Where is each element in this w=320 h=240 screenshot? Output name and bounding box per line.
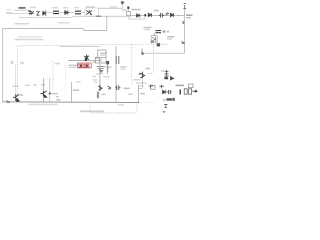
label bbox=[121, 66, 127, 67]
wire bbox=[81, 12, 85, 14]
wire cap to box bbox=[153, 33, 155, 36]
marks bbox=[102, 94, 106, 96]
component dark blob bbox=[164, 77, 168, 79]
cluster marks bbox=[151, 40, 155, 43]
label row bbox=[15, 23, 30, 25]
fuse F1 label bbox=[19, 7, 26, 9]
dashed module box right bbox=[152, 44, 154, 73]
wire neutral return bbox=[18, 15, 96, 18]
transformer T1 windings bbox=[86, 10, 92, 15]
wire drop to rectifier box bbox=[127, 9, 129, 12]
label Q2 bbox=[20, 94, 24, 96]
label bbox=[52, 93, 58, 95]
varistor RV1 dark blob bbox=[28, 10, 31, 12]
dashed lower box right bbox=[136, 102, 138, 113]
fuse F1 bbox=[29, 11, 34, 15]
dashed lower box left bbox=[89, 102, 91, 113]
inductor L2 bbox=[166, 12, 170, 15]
label bbox=[103, 66, 109, 67]
resistor R marked 1 bbox=[79, 64, 83, 67]
label row bbox=[18, 36, 42, 37]
component dot bbox=[100, 71, 102, 73]
components below U1 bbox=[97, 67, 105, 71]
label T1 bbox=[86, 6, 95, 7]
label bbox=[140, 93, 145, 95]
bottom right cluster row1 bbox=[149, 85, 154, 88]
label bbox=[154, 10, 159, 12]
wire drop to lower rail bbox=[106, 16, 108, 30]
label MC bbox=[167, 36, 174, 38]
label bbox=[121, 9, 127, 11]
diode D4 bbox=[137, 14, 140, 18]
polarity mark bbox=[182, 21, 184, 24]
wire stub up bbox=[141, 49, 143, 53]
bottom bus wire bbox=[3, 101, 139, 104]
output terminal + bbox=[183, 4, 186, 9]
capacitor C6 bbox=[171, 13, 174, 17]
wire bbox=[59, 12, 64, 14]
wire secondary bottom bbox=[96, 15, 132, 17]
dashed inner box left bbox=[52, 61, 54, 92]
transistor Q3 bbox=[41, 91, 47, 98]
wire dark segment bbox=[96, 15, 101, 17]
wire output rail bbox=[132, 14, 185, 16]
capacitor C1 bbox=[53, 11, 59, 13]
capacitor C5 bbox=[159, 13, 164, 18]
bottom center transistor Q5 bbox=[98, 85, 102, 91]
transformer T1 box bbox=[85, 8, 99, 16]
AC return squiggle bbox=[6, 100, 10, 102]
capacitor bbox=[116, 85, 121, 90]
dashed lower box bottom bbox=[90, 112, 137, 114]
label above U1 bbox=[100, 53, 107, 54]
component dark mark bbox=[106, 61, 109, 64]
label feedback bbox=[144, 27, 152, 29]
labels near bus x133 bbox=[133, 79, 140, 81]
junction dot bbox=[99, 70, 101, 72]
red highlight box bbox=[78, 63, 92, 68]
terminal mark bbox=[21, 62, 24, 65]
dashed inner box right bbox=[131, 44, 133, 85]
diode mark bbox=[170, 76, 174, 80]
resistor vertical below mark bbox=[106, 65, 108, 75]
terminal mark bbox=[11, 61, 14, 64]
primary bus wire bbox=[3, 29, 107, 31]
marks left of x71 bbox=[56, 96, 59, 97]
wire vertical x71 bbox=[70, 82, 72, 102]
label below bus left bbox=[118, 104, 124, 106]
right mid chain resistor divider bbox=[164, 70, 168, 80]
wire bbox=[70, 12, 76, 14]
resistor vertical bbox=[97, 91, 99, 98]
wire output return bbox=[128, 16, 145, 20]
diode D1 bbox=[42, 10, 46, 16]
wire center vertical bbox=[115, 46, 117, 102]
wire top link bbox=[46, 12, 53, 14]
label bbox=[69, 65, 78, 67]
snubber diode D3 bbox=[121, 1, 124, 5]
label right of red box bbox=[93, 62, 97, 63]
arrow on wire bbox=[48, 92, 51, 95]
thermistor RT1 bbox=[36, 11, 39, 15]
label bbox=[58, 22, 69, 24]
label bbox=[128, 94, 133, 96]
label bbox=[92, 76, 96, 77]
junction dark bbox=[157, 43, 161, 46]
node AC input label bbox=[6, 12, 12, 14]
label below bus center-left bbox=[29, 104, 58, 106]
small glyph bbox=[163, 30, 166, 32]
label bbox=[95, 57, 100, 59]
dashed divider bbox=[64, 62, 66, 90]
wire bbox=[139, 78, 143, 88]
marks near 78 82 bbox=[76, 81, 81, 82]
glyph bbox=[108, 86, 112, 89]
wire secondary top bbox=[99, 7, 123, 9]
dashes bbox=[161, 43, 168, 45]
arrow out bbox=[192, 90, 197, 92]
capacitor C7 bbox=[156, 31, 162, 33]
label row bbox=[15, 39, 44, 41]
glyph below bbox=[164, 104, 168, 107]
wire Q3 to bus bbox=[43, 78, 45, 102]
IC label MC dark text bbox=[166, 98, 172, 100]
optocoupler internals bbox=[152, 37, 156, 42]
wire feedback bottom bbox=[142, 52, 185, 54]
wire aux supply bbox=[60, 46, 100, 48]
label bbox=[55, 63, 60, 65]
wire snubber drop bbox=[122, 5, 124, 8]
bottom right row2 bbox=[163, 90, 166, 94]
wire AC live top bbox=[10, 12, 28, 14]
label bbox=[94, 82, 97, 83]
wire gate row bbox=[68, 60, 100, 62]
wire bracket over U1 bbox=[98, 50, 106, 57]
zener tick bbox=[182, 41, 185, 43]
optocoupler U3 box bbox=[151, 36, 157, 43]
dashed module box top bbox=[18, 44, 154, 46]
junction node bbox=[127, 7, 129, 9]
switch transistor Q1 bbox=[84, 55, 89, 60]
node mark bbox=[142, 52, 144, 55]
wire left drop bbox=[2, 29, 4, 103]
dashed corner wire bbox=[148, 72, 153, 74]
label row left bbox=[13, 85, 19, 87]
label bbox=[107, 67, 112, 68]
capacitor plates bbox=[116, 56, 119, 64]
label bbox=[96, 73, 103, 74]
label right of x71 bbox=[73, 89, 80, 91]
wire vertical x50 bbox=[49, 78, 51, 102]
top section small labels bbox=[30, 7, 36, 8]
label bbox=[132, 9, 141, 11]
controller U1 box 2 bbox=[101, 57, 106, 63]
wire up from Q2 bbox=[15, 65, 17, 95]
node watermark text bbox=[80, 110, 104, 112]
component box right of bus bbox=[150, 85, 155, 89]
label Vout bbox=[186, 14, 193, 16]
label bbox=[103, 76, 110, 77]
wire controller to output stage bbox=[99, 63, 101, 91]
transistor Q2 bbox=[13, 94, 19, 101]
label bbox=[124, 88, 130, 90]
wire bus faint continuation bbox=[139, 101, 153, 103]
ground mark bbox=[163, 111, 166, 112]
diode D2 bbox=[64, 10, 70, 14]
output rectifier box U2 bbox=[127, 12, 131, 16]
capacitor C2 bbox=[75, 11, 81, 14]
diode D5 bbox=[148, 13, 151, 17]
junction bbox=[144, 14, 146, 16]
label bbox=[161, 70, 166, 71]
feedback transistor Q4 bbox=[139, 72, 145, 78]
dashed module box left bbox=[17, 46, 19, 102]
wire vertical x138.5 bbox=[138, 85, 140, 102]
label bbox=[145, 68, 150, 70]
junction dot bbox=[85, 59, 87, 61]
wire output vertical bbox=[184, 9, 186, 54]
small glyph bbox=[167, 31, 169, 33]
resistor R marked 2 bbox=[84, 64, 89, 67]
controller U1 box bbox=[95, 57, 99, 63]
